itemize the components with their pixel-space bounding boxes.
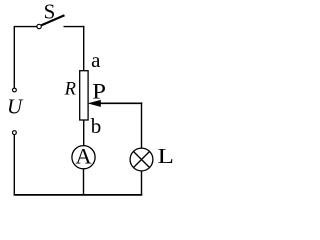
switch S pivot	[37, 24, 41, 28]
svg-text:P: P	[92, 80, 106, 104]
wire ammeter to bottom rail	[83, 169, 85, 196]
switch S blade (open)	[41, 15, 64, 25]
wire right-top vertical into rheostat terminal a	[83, 26, 85, 71]
ammeter A	[72, 146, 95, 169]
wire wiper to right branch	[100, 102, 142, 104]
wire right branch vertical (P to lamp)	[141, 102, 143, 148]
wire top-right (switch to node a)	[64, 26, 85, 28]
wire rheostat b to ammeter	[83, 120, 85, 146]
wire bottom rail	[14, 194, 143, 196]
svg-text:A: A	[75, 143, 92, 168]
svg-text:S: S	[44, 0, 56, 23]
rheostat wiper P arrow	[88, 100, 101, 107]
wire lamp to bottom rail	[141, 171, 143, 196]
svg-text:a: a	[91, 48, 101, 72]
rheostat R body	[80, 71, 88, 120]
svg-text:b: b	[91, 114, 102, 138]
lamp L	[130, 148, 153, 171]
battery U terminal 2	[13, 131, 17, 135]
lamp L cross	[134, 152, 150, 168]
wire left rail upper (switch to battery terminal)	[13, 26, 15, 88]
battery U terminal 1	[13, 88, 17, 92]
wire top-left (battery + to switch)	[14, 26, 36, 28]
svg-text:R: R	[64, 80, 76, 100]
wire left rail lower (battery terminal to bottom rail)	[13, 135, 15, 196]
svg-text:U: U	[7, 95, 24, 119]
svg-text:L: L	[158, 146, 174, 169]
